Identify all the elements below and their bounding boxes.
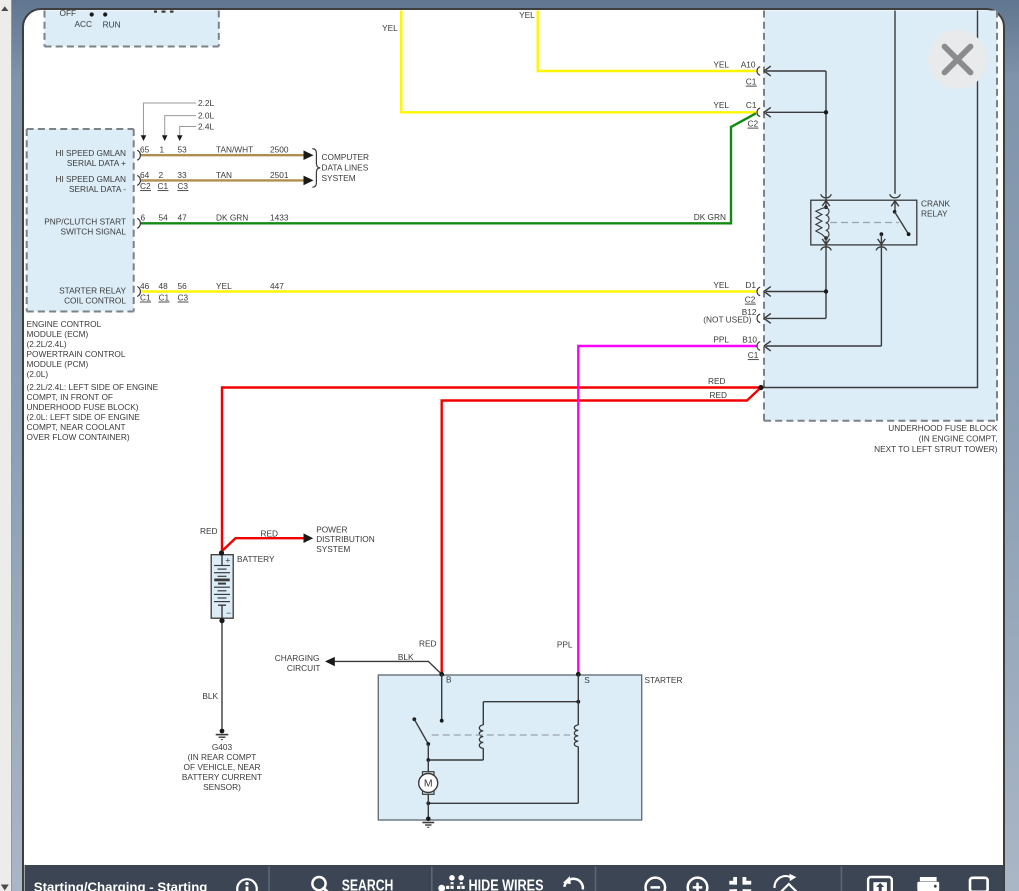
svg-text:OF VEHICLE, NEAR: OF VEHICLE, NEAR: [184, 762, 261, 772]
svg-text:2500: 2500: [270, 145, 289, 155]
svg-text:DK GRN: DK GRN: [216, 213, 248, 223]
svg-text:BLK: BLK: [202, 691, 218, 701]
svg-text:C1: C1: [140, 292, 151, 302]
svg-text:TAN: TAN: [216, 170, 232, 180]
svg-text:G403: G403: [212, 742, 233, 752]
svg-text:YEL: YEL: [519, 10, 535, 20]
svg-text:(2.2L/2.4L): (2.2L/2.4L): [27, 339, 67, 349]
svg-text:(2.0L: LEFT SIDE OF ENGINE: (2.0L: LEFT SIDE OF ENGINE: [27, 412, 141, 422]
svg-text:DK GRN: DK GRN: [694, 212, 726, 222]
svg-text:SENSOR): SENSOR): [203, 782, 241, 792]
svg-text:SYSTEM: SYSTEM: [322, 173, 356, 183]
svg-text:2.4L: 2.4L: [198, 122, 215, 132]
svg-text:(NOT USED): (NOT USED): [703, 315, 751, 325]
svg-text:SEARCH: SEARCH: [342, 878, 394, 891]
svg-text:46: 46: [140, 281, 150, 291]
svg-text:C3: C3: [177, 181, 188, 191]
svg-text:C1: C1: [746, 100, 757, 110]
svg-text:A10: A10: [741, 60, 756, 70]
svg-text:PPL: PPL: [713, 335, 729, 345]
svg-text:2.0L: 2.0L: [198, 111, 215, 121]
svg-text:STARTER RELAY: STARTER RELAY: [59, 286, 126, 296]
svg-text:OVER FLOW CONTAINER): OVER FLOW CONTAINER): [27, 432, 130, 442]
svg-text:RED: RED: [260, 529, 278, 539]
svg-text:HI SPEED GMLAN: HI SPEED GMLAN: [55, 174, 126, 184]
svg-text:54: 54: [159, 213, 169, 223]
svg-text:C1: C1: [158, 181, 169, 191]
svg-text:447: 447: [270, 281, 284, 291]
svg-text:2: 2: [159, 170, 164, 180]
svg-text:C2: C2: [748, 119, 759, 129]
svg-text:RED: RED: [419, 639, 437, 649]
svg-text:PPL: PPL: [557, 640, 573, 650]
svg-text:HI SPEED GMLAN: HI SPEED GMLAN: [55, 148, 126, 158]
svg-text:POWERTRAIN CONTROL: POWERTRAIN CONTROL: [27, 349, 126, 359]
svg-text:UNDERHOOD FUSE BLOCK: UNDERHOOD FUSE BLOCK: [888, 423, 998, 433]
svg-text:C1: C1: [159, 292, 170, 302]
svg-text:6: 6: [141, 213, 146, 223]
svg-text:SWITCH SIGNAL: SWITCH SIGNAL: [61, 227, 127, 237]
svg-text:RUN: RUN: [103, 20, 121, 30]
svg-text:BATTERY: BATTERY: [237, 554, 275, 564]
svg-text:DATA LINES: DATA LINES: [322, 163, 369, 173]
svg-text:YEL: YEL: [713, 60, 729, 70]
svg-text:SERIAL DATA +: SERIAL DATA +: [67, 158, 126, 168]
svg-text:YEL: YEL: [382, 23, 398, 33]
svg-text:C3: C3: [178, 292, 189, 302]
svg-text:Starting/Charging - Starting: Starting/Charging - Starting: [34, 880, 208, 891]
svg-text:CIRCUIT: CIRCUIT: [287, 663, 321, 673]
svg-text:(2.0L): (2.0L): [27, 369, 49, 379]
svg-text:YEL: YEL: [713, 100, 729, 110]
svg-text:D1: D1: [745, 280, 756, 290]
svg-text:COIL CONTROL: COIL CONTROL: [64, 296, 126, 306]
svg-text:MODULE (PCM): MODULE (PCM): [27, 359, 89, 369]
svg-text:MODULE (ECM): MODULE (ECM): [27, 329, 89, 339]
svg-text:(2.2L/2.4L: LEFT SIDE OF ENGIN: (2.2L/2.4L: LEFT SIDE OF ENGINE: [27, 382, 159, 392]
svg-text:POWER: POWER: [316, 524, 347, 534]
svg-text:DISTRIBUTION: DISTRIBUTION: [316, 534, 375, 544]
svg-text:2501: 2501: [270, 170, 289, 180]
svg-text:ENGINE CONTROL: ENGINE CONTROL: [27, 319, 102, 329]
svg-text:1433: 1433: [270, 213, 289, 223]
svg-text:CHARGING: CHARGING: [275, 653, 320, 663]
svg-text:−: −: [226, 608, 231, 618]
svg-text:PNP/CLUTCH START: PNP/CLUTCH START: [44, 217, 126, 227]
svg-text:53: 53: [178, 145, 188, 155]
svg-text:OFF: OFF: [60, 8, 77, 18]
svg-text:2.2L: 2.2L: [198, 98, 215, 108]
svg-text:TAN/WHT: TAN/WHT: [216, 145, 253, 155]
svg-text:BATTERY CURRENT: BATTERY CURRENT: [182, 772, 262, 782]
svg-text:C2: C2: [140, 181, 151, 191]
svg-text:SERIAL DATA -: SERIAL DATA -: [69, 184, 126, 194]
svg-text:CRANK: CRANK: [921, 199, 951, 209]
svg-text:(IN REAR COMPT: (IN REAR COMPT: [188, 752, 257, 762]
svg-text:BLK: BLK: [398, 652, 414, 662]
svg-text:48: 48: [159, 281, 169, 291]
svg-text:HIDE WIRES: HIDE WIRES: [469, 878, 544, 891]
svg-text:56: 56: [178, 281, 188, 291]
svg-text:1: 1: [160, 145, 165, 155]
svg-text:47: 47: [178, 213, 188, 223]
svg-text:65: 65: [140, 145, 150, 155]
svg-text:C1: C1: [748, 350, 759, 360]
svg-text:COMPUTER: COMPUTER: [322, 152, 369, 162]
svg-text:YEL: YEL: [216, 281, 232, 291]
svg-text:C1: C1: [746, 77, 757, 87]
svg-text:33: 33: [177, 170, 187, 180]
svg-text:YEL: YEL: [713, 280, 729, 290]
svg-text:RED: RED: [200, 526, 218, 536]
svg-text:SYSTEM: SYSTEM: [316, 544, 350, 554]
svg-text:+: +: [225, 556, 230, 566]
svg-text:ACC: ACC: [75, 19, 93, 29]
svg-text:RELAY: RELAY: [921, 209, 948, 219]
svg-text:S: S: [584, 675, 590, 685]
svg-text:C2: C2: [745, 295, 756, 305]
svg-text:64: 64: [140, 170, 150, 180]
svg-text:(IN ENGINE COMPT,: (IN ENGINE COMPT,: [919, 434, 998, 444]
svg-text:UNDERHOOD FUSE BLOCK): UNDERHOOD FUSE BLOCK): [27, 402, 139, 412]
svg-text:B10: B10: [742, 335, 757, 345]
svg-text:M: M: [424, 778, 433, 790]
svg-text:STARTER: STARTER: [645, 675, 683, 685]
svg-text:RED: RED: [709, 390, 727, 400]
svg-text:COMPT, NEAR COOLANT: COMPT, NEAR COOLANT: [27, 422, 126, 432]
svg-text:B: B: [446, 675, 452, 685]
svg-text:NEXT TO LEFT STRUT TOWER): NEXT TO LEFT STRUT TOWER): [874, 444, 998, 454]
svg-text:COMPT, IN FRONT OF: COMPT, IN FRONT OF: [27, 392, 114, 402]
svg-text:RED: RED: [708, 376, 726, 386]
